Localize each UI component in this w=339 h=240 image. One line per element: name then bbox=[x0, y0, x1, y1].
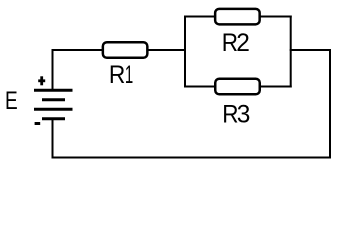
label R1 bbox=[109, 61, 133, 89]
wire: bottom rail bbox=[52, 157, 332, 159]
wire: R1 to parallel-network left node bbox=[148, 49, 187, 51]
svg-text:E: E bbox=[5, 87, 18, 115]
svg-text:2: 2 bbox=[236, 30, 250, 57]
wire: bottom branch, left segment to R3 bbox=[184, 86, 216, 88]
battery E: positive plate (long, top) bbox=[34, 89, 73, 92]
label R3 bbox=[222, 100, 250, 128]
wire: battery negative stub down to bottom rail bbox=[52, 119, 54, 159]
battery E: minus sign bbox=[35, 122, 41, 125]
resistor R1 bbox=[103, 42, 148, 58]
wire: right node to right rail bbox=[290, 49, 331, 51]
wire: right rail down bbox=[329, 49, 331, 159]
wire: bottom branch, right segment from R3 bbox=[259, 86, 292, 88]
label R2 bbox=[222, 29, 250, 57]
battery E: negative plate (short) bbox=[42, 98, 65, 101]
svg-text:R: R bbox=[109, 61, 125, 89]
node: right junction vertical of parallel branch bbox=[290, 16, 292, 88]
wire: top branch, right segment from R2 bbox=[259, 16, 292, 18]
wire: battery positive stub up to top rail bbox=[52, 49, 54, 90]
wire: top rail from battery to R1 bbox=[52, 49, 103, 51]
svg-text:3: 3 bbox=[237, 101, 251, 128]
battery E: negative plate (short, bottom) bbox=[42, 117, 65, 120]
battery E: plus sign bbox=[38, 76, 45, 85]
node: left junction vertical of parallel branch bbox=[184, 16, 186, 88]
wire: top branch, left segment to R2 bbox=[184, 16, 216, 18]
battery E: positive plate (long, inner) bbox=[34, 108, 73, 111]
svg-text:1: 1 bbox=[125, 61, 133, 89]
resistor R3 bbox=[215, 79, 260, 95]
resistor R2 bbox=[215, 9, 260, 25]
